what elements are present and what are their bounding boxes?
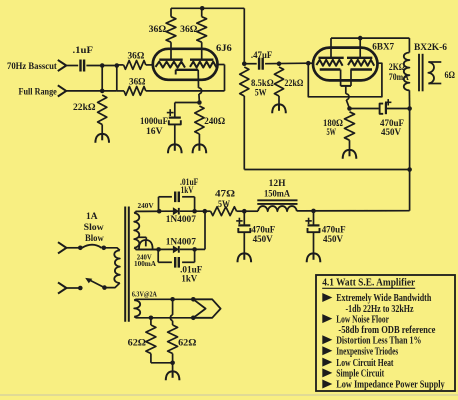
- svg-text:5W: 5W: [255, 88, 267, 98]
- svg-text:Inexpensive Triodes: Inexpensive Triodes: [336, 347, 398, 358]
- svg-text:BX2K-6: BX2K-6: [414, 43, 447, 53]
- svg-text:1kV: 1kV: [181, 275, 197, 285]
- svg-text:Low Impedance Power Supply: Low Impedance Power Supply: [336, 380, 445, 391]
- svg-text:Slow: Slow: [84, 223, 104, 233]
- svg-text:16V: 16V: [146, 127, 163, 137]
- svg-text:Full Range: Full Range: [19, 88, 57, 98]
- svg-text:47Ω: 47Ω: [215, 190, 236, 200]
- svg-text:6Ω: 6Ω: [445, 71, 456, 81]
- svg-text:70Hz Basscut: 70Hz Basscut: [7, 62, 58, 72]
- svg-text:6J6: 6J6: [216, 44, 232, 54]
- svg-text:70mA: 70mA: [389, 73, 409, 83]
- svg-text:6.3V@2A: 6.3V@2A: [132, 291, 158, 299]
- svg-text:22kΩ: 22kΩ: [73, 103, 96, 113]
- svg-text:36Ω: 36Ω: [129, 78, 146, 88]
- svg-text:Extremely Wide Bandwidth: Extremely Wide Bandwidth: [336, 293, 431, 304]
- svg-text:36Ω: 36Ω: [149, 25, 167, 35]
- svg-text:2KΩ: 2KΩ: [389, 63, 406, 73]
- svg-text:5W: 5W: [218, 200, 231, 210]
- svg-text:1A: 1A: [86, 212, 98, 222]
- svg-text:Low Circuit Heat: Low Circuit Heat: [336, 358, 394, 369]
- svg-text:.1uF: .1uF: [73, 46, 94, 56]
- svg-text:-1db 22Hz to 32kHz: -1db 22Hz to 32kHz: [346, 304, 414, 315]
- svg-text:240V: 240V: [138, 202, 155, 210]
- svg-text:5W: 5W: [327, 128, 337, 138]
- svg-text:Blow: Blow: [85, 234, 104, 244]
- svg-text:62Ω: 62Ω: [128, 338, 147, 348]
- svg-text:240Ω: 240Ω: [204, 117, 225, 127]
- svg-text:470uF: 470uF: [322, 226, 346, 236]
- svg-text:1kV: 1kV: [181, 186, 194, 196]
- svg-text:Distortion Less Than 1%: Distortion Less Than 1%: [336, 336, 421, 347]
- svg-text:450V: 450V: [253, 235, 273, 245]
- svg-text:36Ω: 36Ω: [128, 52, 145, 62]
- svg-text:450V: 450V: [381, 128, 401, 138]
- svg-text:Simple Circuit: Simple Circuit: [336, 369, 384, 380]
- svg-text:100mA: 100mA: [134, 260, 157, 268]
- svg-text:Low Noise Floor: Low Noise Floor: [336, 314, 389, 325]
- svg-text:12H: 12H: [269, 179, 287, 189]
- svg-text:6BX7: 6BX7: [372, 42, 394, 52]
- svg-text:470uF: 470uF: [251, 226, 275, 236]
- svg-text:1000uF: 1000uF: [140, 117, 168, 127]
- svg-text:150mA: 150mA: [264, 190, 290, 200]
- svg-text:62Ω: 62Ω: [178, 338, 197, 348]
- svg-text:1N4007: 1N4007: [166, 238, 197, 248]
- svg-text:1N4007: 1N4007: [166, 215, 197, 225]
- svg-text:450V: 450V: [323, 235, 343, 245]
- svg-text:22kΩ: 22kΩ: [284, 79, 303, 89]
- svg-text:4.1 Watt S.E. Amplifier: 4.1 Watt S.E. Amplifier: [322, 277, 415, 289]
- svg-text:36Ω: 36Ω: [180, 25, 198, 35]
